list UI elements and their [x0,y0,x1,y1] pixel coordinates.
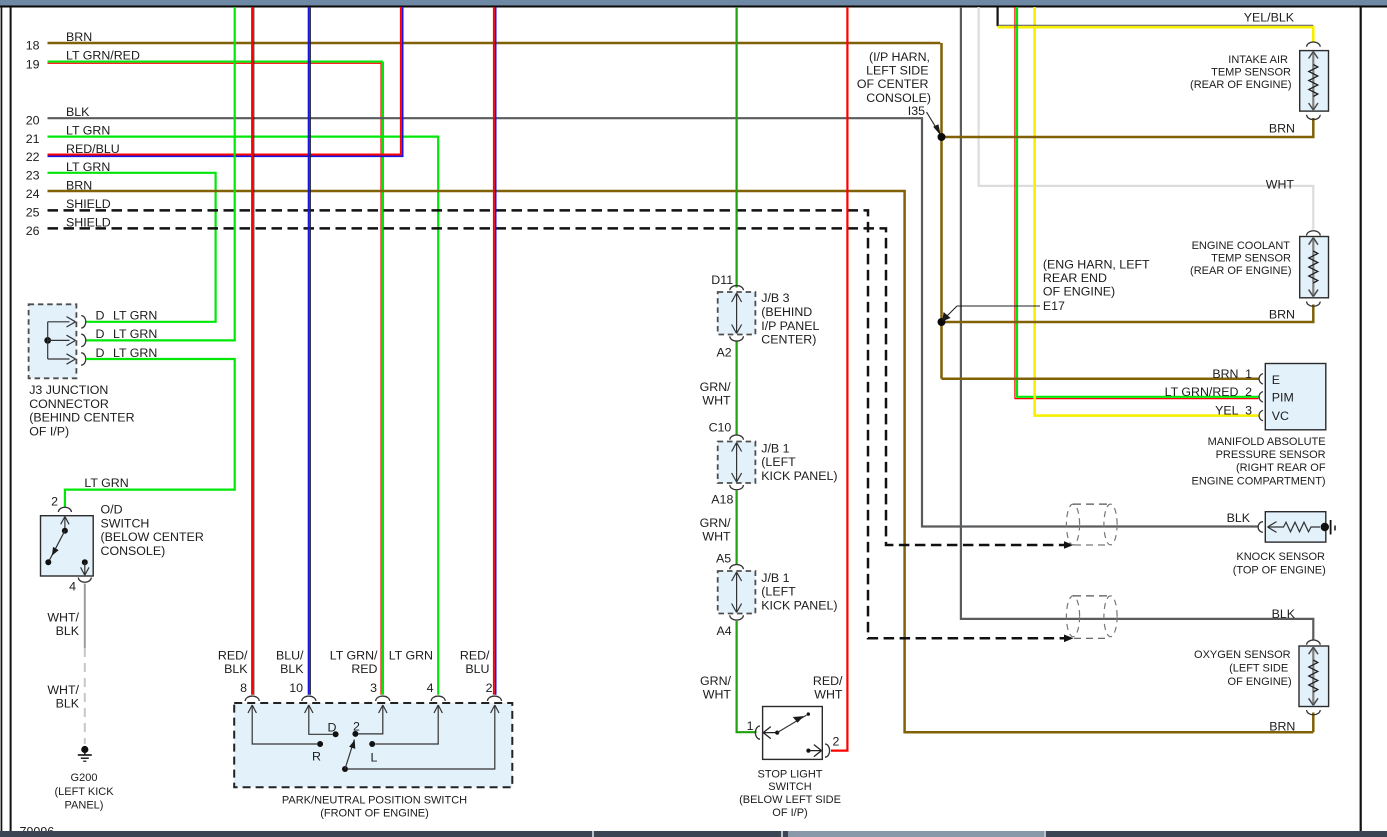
svg-text:D11: D11 [711,273,733,287]
svg-text:2: 2 [486,681,493,695]
wire 20 BLK horizontal [48,118,1259,526]
stop light switch body [763,707,823,760]
park pin 2 connector arc [488,696,502,701]
wire LT GRN/RED to MAP PIM red stripe [1015,7,1259,399]
svg-text:BLK: BLK [1227,511,1251,525]
svg-text:R: R [312,750,321,764]
svg-text:WHT: WHT [814,687,843,701]
svg-text:TEMP SENSOR: TEMP SENSOR [1211,66,1291,78]
O/D pin 4 connector arc bottom [78,578,91,583]
svg-text:PIM: PIM [1272,391,1294,405]
svg-text:MANIFOLD ABSOLUTE: MANIFOLD ABSOLUTE [1208,436,1326,448]
svg-text:BLU: BLU [465,662,489,676]
wire BRN branch to MAP pin 1 [942,378,1259,381]
svg-text:(I/P HARN,: (I/P HARN, [869,50,930,64]
wire GRN/WHT segment A18 to A5 [735,491,737,566]
svg-text:RED/: RED/ [460,649,490,663]
svg-text:PRESSURE SENSOR: PRESSURE SENSOR [1216,449,1326,461]
J3 pin arc top [81,316,86,328]
svg-text:(LEFT SIDE: (LEFT SIDE [1229,663,1288,675]
J/B1a arc bottom [730,485,744,490]
svg-text:SWITCH: SWITCH [768,781,811,793]
park common dot [342,766,348,772]
top black border line [0,5,1387,7]
knock connector arc [1258,522,1263,533]
top chrome bar [0,0,1387,5]
svg-text:REAR END: REAR END [1043,271,1107,285]
J3 JUNCTION CONNECTOR [29,304,158,438]
J3 internal junction dot [44,337,51,344]
intake sensor body [1300,51,1329,112]
svg-text:2: 2 [833,735,840,749]
svg-text:LT GRN: LT GRN [113,327,157,341]
J/B3 arc bottom [730,336,744,341]
svg-text:GRN/: GRN/ [700,380,732,394]
park contact letters [312,719,378,764]
park pin 8 internal arrow to R [252,706,317,744]
knock right tick bars [1330,520,1332,535]
svg-text:RED/: RED/ [218,649,248,663]
label RED/WHT stop [813,674,843,702]
svg-text:WHT: WHT [1266,178,1295,192]
O/D switch lever with arrowhead [48,531,65,563]
svg-text:OF CENTER: OF CENTER [857,77,929,91]
wire BRN oxygen bottom vertical [1312,713,1315,733]
park pin 3 internal arrow to contact 2 [359,706,383,734]
svg-text:BLK: BLK [1272,607,1296,621]
J/B 1a name [761,441,837,483]
MAP pin 1 connector arc [1259,374,1263,384]
svg-text:RED: RED [351,662,377,676]
O/D switch name [101,503,204,558]
wire RED/BLU park pin 2 blue stripe [495,7,497,695]
wire WHT/BLK solid part [84,584,86,649]
wire 26 shield arrowhead [1064,541,1074,549]
oxygen connector arc bottom [1307,710,1321,715]
stop pin 2 connector arc [825,744,830,757]
park pin 8 connector arc [245,696,259,701]
svg-text:A4: A4 [717,624,732,638]
coolant sensor name [1190,240,1291,277]
oxygen sensor body [1299,646,1329,707]
stop contact dot 2 [806,749,810,753]
WIRE-ROW-LABELS [26,30,140,238]
O/D contact dot top [62,528,68,534]
svg-text:22: 22 [26,150,40,164]
svg-text:21: 21 [26,132,40,146]
svg-text:LT GRN: LT GRN [389,649,433,663]
svg-text:4: 4 [69,580,76,594]
svg-text:LT GRN: LT GRN [66,123,110,137]
G200 name [54,772,114,812]
svg-text:8: 8 [240,681,247,695]
svg-text:WHT: WHT [702,530,731,544]
wire RED/WHT to stop light switch pin 2 [831,7,847,751]
svg-text:BLK: BLK [224,662,248,676]
svg-text:D: D [96,309,105,323]
I35 leader line with arrowhead [927,112,941,136]
park switch name [282,794,467,819]
intake resistor element [1312,52,1314,110]
svg-text:CENTER): CENTER) [761,333,816,347]
O/D contact dot lower-left [45,559,51,565]
park switch lever with arrowhead [345,740,354,770]
knock resistor element horizontal [1268,522,1321,532]
J3 name [29,383,134,438]
svg-text:ENGINE COOLANT: ENGINE COOLANT [1192,240,1291,252]
svg-text:WHT: WHT [703,687,732,701]
contact 2 dot [352,731,358,737]
wire BRN branch to coolant sensor bottom [942,305,1314,323]
svg-text:I35: I35 [908,104,925,118]
park pin 10 internal arrow to D [309,706,333,734]
svg-text:26: 26 [26,224,40,238]
J/B 3 dashed body [718,292,756,335]
E17 harness note [1043,257,1150,313]
svg-text:GRN/: GRN/ [700,674,732,688]
svg-text:(REAR OF ENGINE): (REAR OF ENGINE) [1190,265,1291,277]
svg-text:O/D: O/D [101,503,123,517]
wire BLU/BLK park pin 10 blue [308,7,310,695]
coolant connector arc bottom [1307,302,1321,307]
MAP pin 3 connector arc [1259,410,1263,420]
svg-text:BRN: BRN [1269,308,1295,322]
junction dot I35 [938,133,946,141]
stop lever end dot [807,712,810,715]
svg-text:LT GRN/RED: LT GRN/RED [1165,385,1239,399]
wire RED/BLK park pin 8 red [251,7,253,695]
J3 dashed body [29,304,77,378]
svg-text:(REAR OF ENGINE): (REAR OF ENGINE) [1190,79,1291,91]
stop pin 1 connector arc [755,726,760,739]
center connectors chain [700,273,838,638]
bottom bar divider 1 [592,831,594,837]
svg-text:BLK: BLK [66,105,90,119]
J3 internal branch lines [48,322,70,359]
stop pin 2 internal arrow [808,745,821,757]
wire YEL to MAP VC [1035,7,1259,416]
svg-text:(LEFT: (LEFT [761,455,796,469]
J/B 1 second dashed body [718,571,756,614]
svg-text:J3 JUNCTION: J3 JUNCTION [29,383,108,397]
svg-text:OXYGEN SENSOR: OXYGEN SENSOR [1194,649,1291,661]
svg-text:2: 2 [353,719,360,733]
svg-text:A2: A2 [717,346,732,360]
PARK/NEUTRAL POSITION SWITCH [218,649,512,820]
E17 leader line with arrowhead [942,306,1040,321]
wire 26 SHIELD dashed: to knock shield [48,228,1071,545]
wire 22 blue stripe [48,7,403,156]
label GRN/WHT 2 [700,516,732,544]
svg-text:2: 2 [1245,385,1252,399]
svg-text:(BEHIND: (BEHIND [761,305,812,319]
bottom bar light segment [788,831,1044,837]
wire 19 vertical pair down to park pin 3: red left [380,63,382,695]
label WHT/BLK upper [47,611,79,639]
O/D pin 4 internal arrow down [81,562,89,575]
knock sensor body [1265,512,1326,542]
pin labels above park switch [218,649,493,695]
svg-text:CONSOLE): CONSOLE) [866,91,931,105]
wire 25 SHIELD dashed: to knock... to oxygen shield [48,210,1071,638]
intake sensor name [1190,54,1291,91]
svg-text:3: 3 [370,681,377,695]
svg-text:24: 24 [26,187,40,201]
oxygen shield top connecting dashes [1073,595,1111,597]
wire BLK oxygen sensor from top edge [961,7,1313,640]
svg-text:BLU/: BLU/ [276,649,304,663]
wire 22 RED/BLU horizontal red part [48,7,401,155]
svg-text:J/B 1: J/B 1 [761,571,789,585]
svg-text:J/B 3: J/B 3 [761,291,789,305]
oxygen sensor name [1194,649,1292,688]
label GRN/WHT 1 [700,380,732,408]
svg-text:BLK: BLK [56,697,80,711]
wire BRN main vertical x=941.5 [940,43,943,379]
svg-text:(BELOW LEFT SIDE: (BELOW LEFT SIDE [739,794,841,806]
wire BLU/BLK park pin 10 black stripe [310,7,312,695]
svg-text:LT GRN/: LT GRN/ [330,649,378,663]
O/D pin 2 internal arrow [61,517,69,531]
svg-text:(LEFT: (LEFT [761,585,796,599]
MAP pin names [1272,373,1294,423]
svg-text:2: 2 [51,495,58,509]
ground G200 symbol [78,746,92,761]
svg-text:D: D [96,346,105,360]
O/D switch body [41,516,94,576]
MAP sensor body [1265,364,1326,430]
wire GRN/WHT main vertical segment 1 (top to D11) [735,7,737,288]
J/B 1 first dashed body [718,442,756,484]
svg-text:G200: G200 [71,772,98,784]
L contact dot [369,741,375,747]
wire 21 LT GRN horizontal then down to park pin 4 [48,137,439,695]
left border inner line [10,7,12,831]
svg-text:OF I/P): OF I/P) [772,807,807,819]
svg-text:LT GRN: LT GRN [113,346,157,360]
svg-text:YEL/BLK: YEL/BLK [1244,11,1295,25]
wire BRN branch to intake sensor bottom [942,118,1314,137]
svg-text:BRN: BRN [1269,122,1295,136]
O/D SWITCH [41,359,235,812]
svg-text:LEFT SIDE: LEFT SIDE [866,64,928,78]
park switch dashed body [234,703,512,787]
svg-text:(FRONT OF ENGINE): (FRONT OF ENGINE) [320,807,429,819]
park pin 10 connector arc [302,696,316,701]
KNOCK SENSOR [1066,504,1335,576]
wire 23 LT GRN horizontal then down to J3 top pin [48,173,216,322]
park pin 2 internal arrow to common [348,706,495,769]
svg-text:(LEFT KICK: (LEFT KICK [54,786,114,798]
J/B1a arc top [730,435,744,440]
svg-text:1: 1 [747,719,754,733]
svg-text:(BELOW CENTER: (BELOW CENTER [101,530,204,544]
svg-text:KICK PANEL): KICK PANEL) [761,469,837,483]
wire 19 LT GRN/RED horizontal green part [48,60,383,62]
J/B3 arc top [730,286,744,291]
svg-text:10: 10 [289,681,303,695]
junction dot E17 [938,318,946,326]
svg-text:WHT/: WHT/ [47,683,79,697]
svg-text:(RIGHT REAR OF: (RIGHT REAR OF [1236,462,1326,474]
wire 19 vertical green [382,62,384,695]
svg-text:I/P PANEL: I/P PANEL [761,319,819,333]
wire 24 BRN horizontal then down to oxygen BRN [48,191,1314,732]
svg-text:PARK/NEUTRAL POSITION SWITCH: PARK/NEUTRAL POSITION SWITCH [282,794,467,806]
wire 26 thin continuation [1074,544,1108,546]
J3 arrowheads [67,317,76,365]
INTAKE AIR TEMP SENSOR [1190,11,1328,136]
svg-text:J/B 1: J/B 1 [761,441,789,455]
svg-text:18: 18 [26,39,40,53]
svg-text:YEL: YEL [1215,404,1239,418]
svg-text:KNOCK SENSOR: KNOCK SENSOR [1236,551,1325,563]
wire GRN/WHT segment A2 to C10 [735,341,737,434]
O/D pin 4 contact dot [82,559,88,565]
stop light switch name [739,768,841,819]
label WHT/BLK lower [47,683,79,711]
svg-text:(BEHIND CENTER: (BEHIND CENTER [29,411,134,425]
wire LT GRN J3 bottom pin to O/D switch pin 2 [65,359,235,508]
park pin 3 connector arc [376,696,390,701]
wire RED/BLK park pin 8 black stripe [253,7,255,695]
stop contact dot 1 [775,731,779,735]
svg-text:20: 20 [26,113,40,127]
left border outer line [1,7,3,831]
svg-text:RED/: RED/ [813,674,843,688]
J/B1b arc bottom [730,615,744,620]
intake connector arc bottom [1307,115,1321,120]
wire LT GRN/RED to MAP PIM green [1017,7,1259,397]
svg-text:C10: C10 [709,421,732,435]
svg-text:WHT: WHT [702,394,731,408]
wire GRN/WHT segment A4 to stop light switch pin 1 [737,621,757,732]
O/D pin 2 connector arc [58,507,71,512]
R contact dot [317,741,323,747]
svg-text:WHT/: WHT/ [47,611,79,625]
coolant connector arc top [1307,231,1321,236]
svg-text:E: E [1272,373,1280,387]
YEL/BLK thin black stripe on horizontal [998,24,1314,26]
svg-text:OF ENGINE): OF ENGINE) [1228,676,1292,688]
park pin 4 connector arc [431,696,445,701]
svg-text:GRN/: GRN/ [700,516,732,530]
J/B 3 name [761,291,819,346]
svg-text:BLK: BLK [280,662,304,676]
svg-text:VC: VC [1272,409,1289,423]
svg-text:19: 19 [26,57,40,71]
wire 25 shield arrowhead [1064,635,1074,643]
svg-text:A18: A18 [711,492,733,506]
knock shield symbol right ellipse [1104,504,1117,545]
knock shield symbol left ellipse [1066,504,1079,545]
svg-text:SHIELD: SHIELD [66,197,111,211]
oxygen shield symbol right ellipse [1104,596,1117,637]
right border line [1360,7,1362,831]
svg-text:ENGINE COMPARTMENT): ENGINE COMPARTMENT) [1192,475,1326,487]
wire 19 red stripe [48,62,382,64]
wire YEL/BLK yellow horizontal to intake sensor [998,27,1314,42]
coolant sensor body [1300,237,1329,298]
J/B 3 double arrow [732,293,742,334]
svg-text:BRN: BRN [1212,367,1238,381]
coolant resistor element [1312,238,1314,296]
svg-text:BLK: BLK [56,624,80,638]
J3 pin arc middle [81,334,86,346]
J/B 1b double arrow [732,572,742,613]
svg-text:KICK PANEL): KICK PANEL) [761,598,837,612]
svg-text:CONNECTOR: CONNECTOR [29,397,109,411]
svg-text:OF I/P): OF I/P) [29,424,69,438]
knock shield top connecting dashes [1073,503,1111,505]
svg-text:TEMP SENSOR: TEMP SENSOR [1211,253,1291,265]
MANIFOLD ABSOLUTE PRESSURE SENSOR [1165,364,1326,488]
wire 25 thin continuation to right shield ellipse [1074,637,1108,639]
D contact dot [333,731,339,737]
STOP LIGHT SWITCH [700,674,843,819]
ENGINE COOLANT TEMP SENSOR [1190,178,1328,322]
J/B 1a double arrow [732,443,742,483]
wire GRN to J3 middle pin from top edge [86,7,235,340]
svg-text:INTAKE AIR: INTAKE AIR [1228,54,1288,66]
MAP sensor name [1192,436,1326,488]
bottom bar divider 3 [1044,831,1046,837]
MAP pin 2 connector arc [1259,392,1263,402]
svg-text:BRN: BRN [1269,719,1295,733]
park pin 4 internal arrow to L [375,706,438,744]
svg-text:25: 25 [26,206,40,220]
svg-text:CONSOLE): CONSOLE) [101,544,166,558]
svg-text:D: D [96,327,105,341]
knock sensor name [1233,551,1326,576]
knock element dot [1321,523,1329,531]
svg-text:(ENG HARN, LEFT: (ENG HARN, LEFT [1043,257,1150,271]
stop lever with arrowhead [777,715,806,733]
stop pin 1 internal arrow [763,727,777,739]
svg-text:PANEL): PANEL) [65,800,104,812]
I35 harness note [857,50,931,118]
label GRN/WHT stop [700,674,732,702]
svg-text:L: L [371,751,378,765]
bottom bar divider 2 [781,831,783,837]
wire WHT coolant sensor from top edge [979,7,1314,230]
OXYGEN SENSOR [1066,596,1328,733]
J/B1b arc top [730,565,744,570]
oxygen resistor element [1312,648,1314,706]
wire YEL/BLK black vertical from top edge [996,7,998,26]
svg-text:D: D [328,720,337,734]
wire RED/BLU park pin 2 red [493,7,495,695]
oxygen connector arc top [1307,640,1321,645]
oxygen shield symbol left ellipse [1066,596,1079,637]
bottom chrome bar dark [0,831,1387,837]
svg-text:(TOP OF ENGINE): (TOP OF ENGINE) [1233,565,1326,577]
wire 18 BRN: left stub to x=941.5 then down [48,42,941,45]
J/B 1b name [761,571,837,613]
svg-text:STOP LIGHT: STOP LIGHT [757,768,822,780]
svg-text:4: 4 [427,681,434,695]
svg-text:1: 1 [1245,367,1252,381]
svg-text:A5: A5 [716,552,731,566]
svg-text:SWITCH: SWITCH [101,516,150,530]
svg-text:E17: E17 [1043,299,1065,313]
J3 pin arc bottom [81,353,86,365]
J3 pin labels [96,309,158,360]
svg-text:3: 3 [1245,404,1252,418]
svg-text:OF ENGINE): OF ENGINE) [1043,285,1115,299]
wire WHT/BLK dashed part [84,648,86,744]
intake connector arc top [1307,42,1321,47]
